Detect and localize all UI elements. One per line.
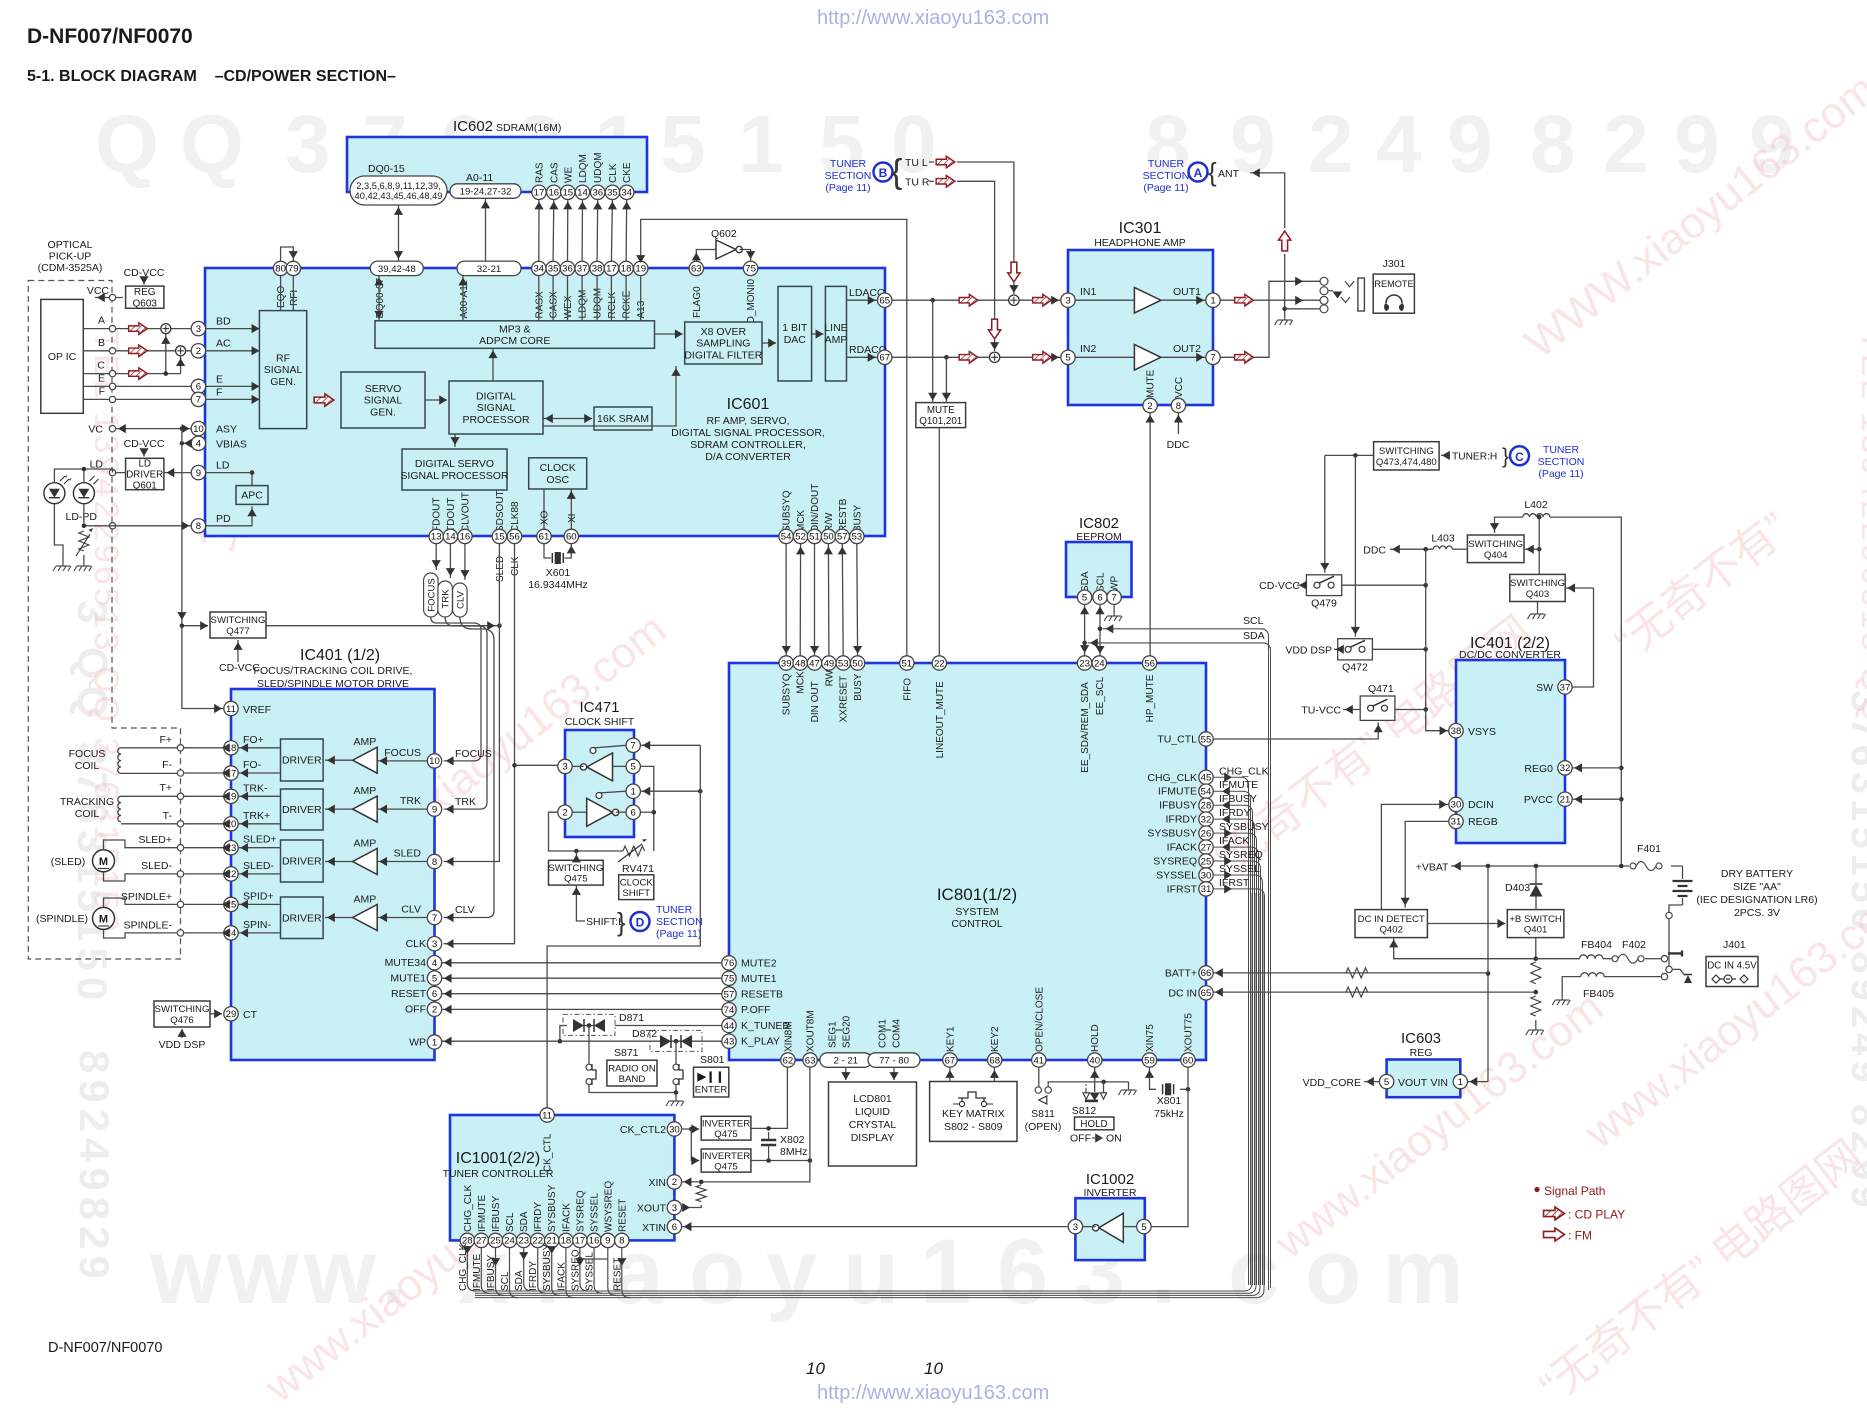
wire dsp-sys link bbox=[785, 544, 787, 656]
svg-text:1: 1 bbox=[738, 99, 784, 190]
svg-text:D872: D872 bbox=[632, 1028, 657, 1040]
pin IC471 2 bbox=[558, 805, 572, 819]
svg-text:IC1001(2/2): IC1001(2/2) bbox=[456, 1150, 541, 1167]
wire pin1 from right bbox=[640, 790, 700, 792]
box OP IC bbox=[41, 299, 84, 413]
wire 471 1 feedback bbox=[599, 791, 626, 798]
svg-text:AC: AC bbox=[216, 338, 231, 350]
svg-text:36: 36 bbox=[562, 264, 573, 275]
svg-text:: CD PLAY: : CD PLAY bbox=[1568, 1208, 1625, 1222]
pin IC601 6 E bbox=[191, 379, 205, 393]
pin IC1001 3 XOUT bbox=[667, 1200, 681, 1214]
svg-text:FOCUS: FOCUS bbox=[69, 748, 106, 760]
svg-text:SYSREQ: SYSREQ bbox=[575, 1190, 586, 1232]
pin IC801 76 MUTE2 bbox=[722, 956, 736, 970]
svg-text:(Page 11): (Page 11) bbox=[1143, 182, 1188, 194]
pin IC601 65 LDACO bbox=[878, 293, 892, 307]
wire 471 in2 bbox=[572, 811, 587, 813]
pin IC801 43 K_PLAY bbox=[722, 1034, 736, 1048]
svg-text:SIGNAL: SIGNAL bbox=[477, 402, 516, 414]
svg-text:F-: F- bbox=[162, 759, 172, 771]
svg-text:IC602: IC602 bbox=[453, 118, 493, 135]
svg-text:SECTION: SECTION bbox=[656, 916, 703, 928]
key matrix box bbox=[930, 1082, 1017, 1142]
svg-text:SYSBUSY: SYSBUSY bbox=[547, 1184, 558, 1232]
wire riser to VSYS bbox=[1426, 710, 1450, 731]
wire IC801 SYSREQ bbox=[1213, 861, 1260, 1285]
dashed boundary optical pick-up bbox=[28, 281, 180, 960]
pin IC801 22 LINEOUT_MUTE bbox=[932, 656, 946, 670]
svg-text:TU-VCC: TU-VCC bbox=[1301, 705, 1341, 717]
wire K_TUNER bbox=[615, 1025, 722, 1027]
svg-text:10: 10 bbox=[429, 756, 440, 767]
svg-text:(OPEN): (OPEN) bbox=[1025, 1121, 1062, 1133]
svg-text:RASX: RASX bbox=[534, 291, 545, 319]
svg-text:X802: X802 bbox=[780, 1134, 805, 1146]
pin IC401-1 29 CT bbox=[224, 1007, 238, 1021]
svg-text:XI: XI bbox=[567, 514, 578, 523]
pin IC801 31 IFRST bbox=[1199, 882, 1213, 896]
wire OUT2 to jack tip bbox=[1220, 281, 1320, 357]
svg-text:SCL: SCL bbox=[500, 1271, 511, 1291]
wire IC1001 SCL stub bbox=[510, 1248, 518, 1298]
node 39,42-48 stadium bbox=[370, 261, 423, 276]
pin IC601 2 AC bbox=[191, 344, 205, 358]
svg-text:3: 3 bbox=[432, 939, 437, 950]
LED laser diode bbox=[44, 483, 65, 504]
svg-text:Q402: Q402 bbox=[1379, 925, 1402, 936]
svg-text:36: 36 bbox=[592, 188, 603, 199]
svg-text:RCKE: RCKE bbox=[622, 290, 633, 318]
svg-text:S812: S812 bbox=[1072, 1105, 1097, 1117]
svg-text:LINE: LINE bbox=[824, 322, 847, 334]
svg-text:8: 8 bbox=[432, 857, 437, 868]
svg-text:37: 37 bbox=[577, 264, 588, 275]
wire pin to amp FOCUS bbox=[377, 760, 427, 762]
svg-text:DRIVER: DRIVER bbox=[282, 912, 322, 924]
svg-text:SWITCHING: SWITCHING bbox=[548, 863, 603, 874]
wire DSP to X8 filter bottom bbox=[543, 366, 676, 426]
wire PD to APC bbox=[206, 506, 252, 525]
svg-text:39: 39 bbox=[781, 658, 792, 669]
red arrow cd R1 bbox=[959, 352, 978, 364]
svg-text:PICK-UP: PICK-UP bbox=[49, 251, 92, 263]
pin IC401-2 32 REG0 bbox=[1558, 761, 1572, 775]
svg-text:M: M bbox=[99, 914, 108, 926]
svg-text:FO-: FO- bbox=[243, 759, 262, 771]
svg-text:3: 3 bbox=[1065, 296, 1070, 307]
svg-text:MCK: MCK bbox=[796, 671, 807, 694]
red arrow cd L1 bbox=[959, 294, 978, 306]
focus stadium bbox=[424, 573, 439, 617]
wire xtin long bbox=[682, 1226, 1068, 1228]
svg-text:68: 68 bbox=[989, 1055, 1000, 1066]
wire IC801 IFRST bbox=[1213, 889, 1264, 1285]
svg-text:INVERTER: INVERTER bbox=[702, 1118, 750, 1129]
node DQ0-15 pins stadium bbox=[350, 176, 447, 205]
svg-text:1: 1 bbox=[1458, 1077, 1463, 1088]
svg-text:HP_MUTE: HP_MUTE bbox=[1145, 674, 1156, 722]
svg-text:SDRAM CONTROLLER,: SDRAM CONTROLLER, bbox=[690, 439, 806, 451]
svg-text:2: 2 bbox=[1308, 99, 1354, 190]
svg-text:2PCS. 3V: 2PCS. 3V bbox=[1734, 907, 1780, 919]
IC IC802 EEPROM block bbox=[1066, 542, 1132, 597]
switch box SWITCHING Q475 bbox=[549, 860, 604, 885]
svg-text:REG: REG bbox=[134, 287, 156, 298]
svg-text:XIN: XIN bbox=[648, 1177, 666, 1189]
wire amp out2 bbox=[1161, 356, 1206, 358]
svg-text:53: 53 bbox=[851, 532, 862, 543]
pin IC401-1 5 MUTE1 bbox=[427, 971, 441, 985]
wire driver CLV out1 bbox=[238, 903, 280, 905]
svg-text:F: F bbox=[99, 385, 105, 397]
svg-text:32-21: 32-21 bbox=[477, 264, 502, 275]
pin IC401-1 11 VREF bbox=[224, 701, 238, 715]
wire 471 in3 bbox=[572, 765, 583, 767]
wire DSP to DIGITAL SERVO bbox=[454, 434, 456, 447]
amp triangle 2 bbox=[1134, 345, 1161, 371]
svg-text:1: 1 bbox=[432, 1037, 437, 1048]
svg-text:37: 37 bbox=[1560, 682, 1571, 693]
svg-text:63: 63 bbox=[805, 1055, 816, 1066]
svg-text:F402: F402 bbox=[1622, 939, 1646, 951]
svg-text:2: 2 bbox=[1147, 401, 1152, 412]
svg-text:IC301: IC301 bbox=[1119, 220, 1162, 237]
svg-text:45: 45 bbox=[1201, 773, 1212, 784]
svg-text:2: 2 bbox=[432, 1005, 437, 1016]
svg-text:DIGITAL SIGNAL PROCESSOR,: DIGITAL SIGNAL PROCESSOR, bbox=[671, 427, 825, 439]
svg-text:75: 75 bbox=[745, 264, 756, 275]
svg-text:52: 52 bbox=[795, 532, 806, 543]
svg-text:SCL: SCL bbox=[505, 1212, 516, 1232]
wire sdram ctl inner bbox=[538, 276, 540, 321]
svg-text:CLK: CLK bbox=[510, 556, 521, 576]
svg-text:8: 8 bbox=[1176, 401, 1181, 412]
wire OUT1 to jack bbox=[1220, 299, 1320, 301]
svg-text:2: 2 bbox=[672, 1177, 677, 1188]
wire LDACO out bbox=[847, 299, 878, 301]
variable resistor RV471 bbox=[623, 846, 645, 856]
wire VBAT rail bbox=[1451, 865, 1683, 867]
svg-text:CLK: CLK bbox=[608, 163, 619, 183]
svg-text:S871: S871 bbox=[614, 1047, 639, 1059]
svg-text:FDOUT: FDOUT bbox=[432, 498, 443, 532]
svg-text:EQO: EQO bbox=[276, 286, 287, 308]
pin IC1001 9 WSYSREQ bbox=[601, 1233, 615, 1247]
svg-text:41: 41 bbox=[1033, 1055, 1044, 1066]
svg-text:18: 18 bbox=[561, 1236, 572, 1247]
wire s811 gnd line bbox=[1048, 1082, 1128, 1087]
svg-text:VBIAS: VBIAS bbox=[216, 438, 247, 450]
svg-text:RFI: RFI bbox=[289, 290, 300, 306]
svg-text:OP IC: OP IC bbox=[48, 351, 77, 363]
pin IC801 68 KEY2 bbox=[988, 1053, 1002, 1067]
wire LD to driver bbox=[116, 472, 126, 474]
svg-text:Q602: Q602 bbox=[711, 228, 737, 240]
wire right LED to LDPD bbox=[83, 504, 85, 526]
svg-text:SCL: SCL bbox=[1096, 572, 1107, 592]
svg-text:CD-VCC: CD-VCC bbox=[124, 438, 165, 450]
svg-text:5-1. BLOCK DIAGRAM –CD/POWE: 5-1. BLOCK DIAGRAM –CD/POWER SECTION– bbox=[27, 68, 396, 85]
svg-text:CLVOUT: CLVOUT bbox=[460, 492, 471, 532]
svg-text:: FM: : FM bbox=[1568, 1229, 1592, 1243]
svg-text:SHIFT: SHIFT bbox=[622, 888, 650, 899]
pin IC601 9 LD bbox=[191, 465, 205, 479]
pin IC601 60 XTAL bbox=[564, 529, 578, 543]
svg-text:10: 10 bbox=[193, 424, 204, 435]
wire Q472 right bbox=[1372, 648, 1425, 650]
svg-text:KEY2: KEY2 bbox=[990, 1026, 1001, 1052]
svg-text:REGB: REGB bbox=[1468, 816, 1498, 828]
focus coil symbol bbox=[118, 748, 121, 774]
IC IC301 HEADPHONE AMP block bbox=[1068, 250, 1213, 405]
svg-text:XOUT: XOUT bbox=[637, 1203, 667, 1215]
enter box S801 bbox=[694, 1067, 729, 1097]
box 16K SRAM bbox=[594, 407, 652, 430]
svg-text:27: 27 bbox=[1201, 842, 1212, 853]
svg-text:1: 1 bbox=[1210, 296, 1215, 307]
tuner section C label bbox=[1538, 444, 1585, 480]
wire Q401 bottom bbox=[1535, 938, 1537, 959]
pin IC471 3 bbox=[558, 759, 572, 773]
wire pickup E bbox=[83, 385, 198, 387]
wire SCL bus bbox=[1103, 628, 1262, 630]
svg-text:J301: J301 bbox=[1383, 258, 1406, 270]
resistor below Q401 upper bbox=[1531, 962, 1541, 984]
legend CD PLAY bbox=[1544, 1207, 1565, 1220]
svg-text:VCC: VCC bbox=[87, 285, 110, 297]
wire scl sda verticals right bbox=[1268, 636, 1270, 1290]
pin IC801 32 IFRDY bbox=[1199, 812, 1213, 826]
pin IC401-1 10 FOCUS bbox=[427, 754, 441, 768]
svg-text:A: A bbox=[98, 315, 105, 327]
svg-text:A0-11: A0-11 bbox=[466, 172, 493, 184]
regulator REG Q603 box bbox=[126, 286, 164, 308]
pin IC1001 23 SDA bbox=[517, 1233, 531, 1247]
pin IC401-1 4 MUTE34 bbox=[427, 956, 441, 970]
svg-text:(Page 11): (Page 11) bbox=[1538, 468, 1583, 480]
pin IC601 18 RCKE bbox=[619, 261, 633, 275]
red arrow out2 bbox=[1235, 352, 1254, 364]
svg-text:T+: T+ bbox=[159, 782, 172, 794]
wire IC1001 IFMUTE stub bbox=[481, 1248, 489, 1294]
red arrow CD B bbox=[129, 345, 148, 357]
wire driver TRK out1 bbox=[238, 795, 280, 797]
wire sleeve bbox=[1285, 308, 1320, 310]
pin IC1001 22 IFRDY bbox=[531, 1233, 545, 1247]
pin IC601 17 RCLK bbox=[604, 261, 618, 275]
svg-text:+VBAT: +VBAT bbox=[1416, 861, 1449, 873]
svg-text:SIGNAL: SIGNAL bbox=[364, 395, 403, 407]
svg-text:SLED: SLED bbox=[495, 556, 506, 582]
svg-text:65: 65 bbox=[1201, 988, 1212, 999]
svg-text:89249829: 89249829 bbox=[71, 1050, 118, 1285]
svg-text:D/A CONVERTER: D/A CONVERTER bbox=[705, 451, 791, 463]
wire Q403 right from SW37 bbox=[1565, 587, 1593, 589]
svg-text:E: E bbox=[98, 372, 105, 384]
svg-text:OPEN/CLOSE: OPEN/CLOSE bbox=[1034, 987, 1045, 1052]
wire left LED to ground bbox=[54, 504, 63, 562]
svg-text:FOCUS: FOCUS bbox=[384, 747, 421, 759]
wire amp SLED to driver bbox=[325, 861, 353, 863]
svg-text:57: 57 bbox=[837, 532, 848, 543]
svg-text:D-NF007/NF0070: D-NF007/NF0070 bbox=[27, 25, 193, 48]
svg-text:6: 6 bbox=[196, 382, 201, 393]
svg-text:80: 80 bbox=[275, 264, 286, 275]
svg-text:SIZE "AA": SIZE "AA" bbox=[1733, 881, 1781, 893]
wire SCL down bbox=[1099, 604, 1101, 655]
svg-text:5: 5 bbox=[432, 973, 437, 984]
wire TU R bbox=[957, 181, 995, 320]
wire F into RF bbox=[206, 398, 260, 400]
svg-text:http://www.xiaoyu163.com: http://www.xiaoyu163.com bbox=[817, 1382, 1049, 1404]
pin IC471 1 bbox=[626, 784, 640, 798]
svg-text:40: 40 bbox=[1089, 1055, 1100, 1066]
wire IC1001 IFACK stub bbox=[566, 1248, 574, 1298]
svg-text:DC IN: DC IN bbox=[1168, 987, 1197, 999]
svg-text:S801: S801 bbox=[700, 1054, 725, 1066]
wire IC801 SYSSEL bbox=[1213, 875, 1262, 1285]
svg-text:TU R: TU R bbox=[905, 177, 930, 189]
svg-text:55: 55 bbox=[1201, 734, 1212, 745]
svg-text:FB404: FB404 bbox=[1581, 939, 1612, 951]
svg-text:EEPROM: EEPROM bbox=[1076, 531, 1122, 543]
IC IC601 main DSP block bbox=[205, 268, 885, 536]
svg-text:TUNER:H: TUNER:H bbox=[1452, 452, 1497, 463]
svg-text:Q479: Q479 bbox=[1311, 598, 1337, 610]
svg-text:(Page 11): (Page 11) bbox=[656, 928, 701, 940]
switch box SWITCHING Q476 bbox=[154, 1001, 210, 1027]
svg-text:DC IN 4.5V: DC IN 4.5V bbox=[1707, 961, 1757, 972]
svg-text:15: 15 bbox=[494, 532, 505, 543]
svg-text:5: 5 bbox=[1141, 1222, 1146, 1233]
switch Q472 bbox=[1338, 639, 1373, 660]
radio on band box bbox=[607, 1060, 657, 1086]
svg-text:IC802: IC802 bbox=[1079, 515, 1119, 532]
svg-text:28: 28 bbox=[1201, 801, 1212, 812]
svg-text:X801: X801 bbox=[1157, 1095, 1182, 1107]
wire pickup B bbox=[83, 350, 198, 352]
svg-text:3: 3 bbox=[196, 324, 201, 335]
wire focus route bbox=[431, 617, 481, 761]
svg-text:14: 14 bbox=[577, 188, 588, 199]
svg-text:VOUT: VOUT bbox=[1398, 1077, 1428, 1089]
pin IC801 26 SYSBUSY bbox=[1199, 826, 1213, 840]
wire amp FOCUS to driver bbox=[325, 759, 353, 761]
svg-text:5: 5 bbox=[1082, 593, 1087, 604]
svg-text:HEADPHONE AMP: HEADPHONE AMP bbox=[1094, 237, 1186, 249]
svg-text:LCD801: LCD801 bbox=[853, 1093, 892, 1105]
svg-text:16: 16 bbox=[548, 188, 559, 199]
svg-text:TUNER CONTROLLER: TUNER CONTROLLER bbox=[443, 1168, 554, 1180]
svg-text:50: 50 bbox=[852, 658, 863, 669]
svg-text:Q404: Q404 bbox=[1484, 550, 1508, 561]
pin IC801 48 MCK bbox=[793, 656, 807, 670]
wire pin2 down bbox=[549, 812, 623, 851]
svg-text:CLOCK: CLOCK bbox=[620, 877, 654, 888]
wire pickup F bbox=[83, 398, 198, 400]
wire shift L bbox=[576, 885, 585, 921]
svg-text:CASX: CASX bbox=[549, 291, 560, 319]
svg-text:IN1: IN1 bbox=[1080, 286, 1097, 298]
svg-text:FOCUS: FOCUS bbox=[426, 578, 437, 612]
svg-text:RESET: RESET bbox=[391, 988, 427, 1000]
wire Q471 right to vsys riser bbox=[1395, 709, 1426, 711]
svg-text:34: 34 bbox=[533, 264, 544, 275]
svg-text:24: 24 bbox=[504, 1236, 515, 1247]
svg-text:COM4: COM4 bbox=[892, 1019, 903, 1048]
svg-text:F: F bbox=[216, 387, 222, 399]
svg-text:ASY: ASY bbox=[216, 424, 237, 436]
svg-text:ENTER: ENTER bbox=[695, 1085, 728, 1096]
svg-text:35: 35 bbox=[607, 188, 618, 199]
wire VIN from vbat riser bbox=[1468, 1081, 1489, 1083]
wire sled motor - bbox=[104, 872, 178, 881]
wire WP-K_PLAY bbox=[442, 1040, 722, 1042]
svg-text:3: 3 bbox=[672, 1203, 677, 1214]
tuner C circle bbox=[1510, 446, 1529, 465]
svg-text:ADPCM CORE: ADPCM CORE bbox=[479, 335, 550, 347]
wire BD into RF bbox=[206, 328, 260, 330]
pin IC401-1 22 SLED- bbox=[224, 867, 238, 881]
pin IC401-1 24 SPIN- bbox=[224, 926, 238, 940]
wire amp out1 bbox=[1161, 299, 1206, 301]
wire LED bridge bbox=[54, 469, 84, 483]
svg-text:VDD DSP: VDD DSP bbox=[1285, 644, 1332, 656]
wire dsp-sys link bbox=[856, 544, 859, 656]
svg-text:Q473,474,480: Q473,474,480 bbox=[1376, 457, 1437, 468]
svg-text:Q403: Q403 bbox=[1526, 589, 1549, 600]
wire SERVO to DSP bbox=[425, 399, 447, 401]
wire dsp-sys link bbox=[841, 544, 844, 656]
wire Q402 to Q401 bbox=[1427, 923, 1505, 925]
svg-text:w: w bbox=[226, 1221, 299, 1323]
svg-text:CLK88: CLK88 bbox=[510, 501, 521, 532]
svg-text:2: 2 bbox=[562, 808, 567, 819]
svg-text:IFBUSY: IFBUSY bbox=[486, 1255, 497, 1291]
svg-text:5: 5 bbox=[1384, 1077, 1389, 1088]
svg-text:MUTE: MUTE bbox=[927, 405, 955, 416]
svg-text:DQ0-15: DQ0-15 bbox=[368, 163, 405, 175]
svg-text:IFMUTE: IFMUTE bbox=[472, 1253, 483, 1291]
svg-text:75: 75 bbox=[724, 974, 735, 985]
svg-text:18: 18 bbox=[621, 264, 632, 275]
svg-text:.: . bbox=[1151, 1221, 1177, 1323]
switch box SWITCHING Q477 bbox=[210, 612, 266, 638]
svg-text:SYSREQ: SYSREQ bbox=[570, 1249, 581, 1291]
switch S812 slide bbox=[1094, 1067, 1096, 1092]
wire sdram ctl inner bbox=[610, 276, 612, 321]
red arrow cd R2 bbox=[1033, 352, 1052, 364]
wire FB405 left ground bbox=[1562, 977, 1581, 996]
svg-text:RESTB: RESTB bbox=[838, 498, 849, 532]
svg-text:DISPLAY: DISPLAY bbox=[851, 1132, 895, 1144]
svg-text:IFRDY: IFRDY bbox=[1166, 814, 1198, 826]
svg-text:74: 74 bbox=[724, 1005, 735, 1016]
svg-text:7: 7 bbox=[631, 741, 636, 752]
pin IC1002 5 bbox=[1137, 1219, 1151, 1233]
svg-text:6: 6 bbox=[672, 1222, 677, 1233]
svg-text:Q477: Q477 bbox=[226, 626, 249, 637]
pin IC603 1 VIN bbox=[1453, 1074, 1467, 1088]
wire battery to jack bbox=[1669, 905, 1683, 912]
svg-text:TEL 13942296513 QQ 376315150: TEL 13942296513 QQ 376315150 bbox=[87, 330, 125, 935]
red arrow out1 bbox=[1235, 294, 1254, 306]
svg-text:XXRESET: XXRESET bbox=[839, 676, 850, 723]
wire IC801 IFACK bbox=[1213, 847, 1258, 1285]
wire vref bbox=[182, 626, 224, 709]
svg-text:HOLD: HOLD bbox=[1090, 1024, 1101, 1052]
